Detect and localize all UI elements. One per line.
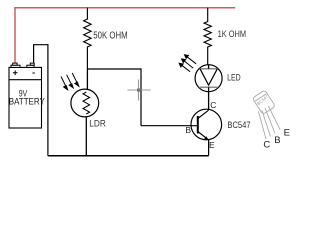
battery positive terminal cap: [11, 63, 20, 67]
svg-text:LDR: LDR: [89, 119, 106, 130]
wire battery negative up-over-down to ground rail: [34, 45, 48, 156]
svg-text:C: C: [263, 140, 270, 151]
svg-text:E: E: [209, 140, 215, 150]
resistor R2 1K: [204, 8, 211, 65]
svg-text:E: E: [284, 127, 290, 138]
svg-text:BC547: BC547: [227, 120, 250, 130]
LED D1: [195, 65, 222, 92]
transistor Q1 BC547 symbol: [191, 109, 222, 140]
svg-text:B: B: [185, 125, 191, 135]
node A divider junction horizontal wire: [87, 68, 141, 70]
emitter arrowhead: [204, 136, 209, 140]
wire node A to LDR top: [86, 69, 88, 90]
LED emission arrow 2: [182, 59, 194, 68]
svg-text:50K OHM: 50K OHM: [93, 31, 127, 42]
TO-92 package leads: [259, 106, 281, 139]
wire V+ red vertical from battery plus: [14, 8, 16, 64]
wire node A down: [140, 68, 142, 125]
wire ground rail bottom: [48, 155, 209, 157]
svg-text:1K OHM: 1K OHM: [218, 29, 247, 40]
wire V+ red top rail: [14, 7, 235, 9]
svg-text:B: B: [274, 135, 280, 146]
svg-text:LED: LED: [227, 72, 241, 83]
LDR R3 photoresistor: [71, 89, 99, 117]
wire LED cathode to collector: [208, 87, 210, 110]
svg-text:C: C: [210, 100, 216, 110]
LED emission arrow 1: [179, 63, 190, 71]
battery plus sign: [13, 70, 18, 75]
battery minus sign: [32, 72, 35, 74]
wire to transistor base: [141, 125, 198, 127]
LDR light arrow 3: [72, 73, 79, 86]
wire LDR bottom to ground rail: [85, 117, 87, 155]
TO-92 package body: [252, 90, 275, 115]
battery negative terminal cap: [27, 63, 34, 67]
resistor R1 50K: [84, 8, 91, 69]
svg-text:BATTERY: BATTERY: [9, 96, 45, 106]
LDR light arrow 1: [61, 77, 68, 90]
crosshair cursor: [128, 80, 151, 101]
wire emitter to ground rail: [208, 140, 210, 156]
LED emission arrow 3: [185, 55, 197, 64]
battery BT1 9V body: [9, 67, 42, 128]
LDR light arrow 2: [67, 75, 74, 88]
